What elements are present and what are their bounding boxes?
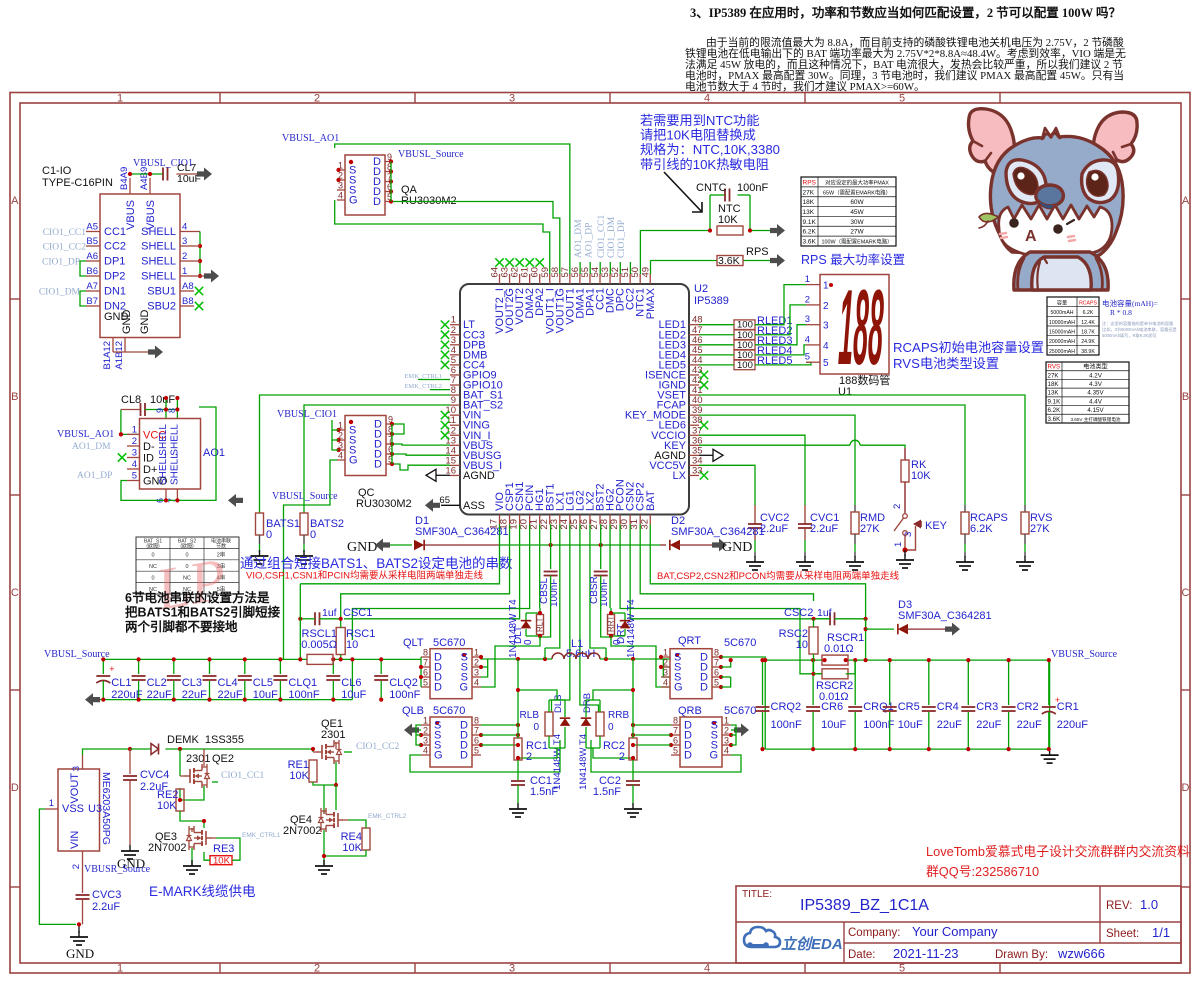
svg-text:D: D [374, 459, 382, 471]
IC U3 ME6203A50PG [45, 755, 112, 869]
svg-text:VBUSR_Source: VBUSR_Source [84, 864, 151, 875]
svg-text:7: 7 [714, 658, 719, 668]
display U1 188 digital tube [805, 267, 891, 398]
svg-text:2N7002: 2N7002 [283, 825, 322, 837]
svg-text:2: 2 [182, 251, 187, 262]
logo LCEDA [744, 927, 843, 953]
svg-text:2: 2 [314, 93, 320, 105]
svg-text:D+: D+ [143, 464, 157, 476]
svg-text:若需要用到NTC功能: 若需要用到NTC功能 [640, 113, 759, 128]
svg-text:D: D [460, 750, 468, 762]
svg-text:4.15V: 4.15V [1087, 407, 1104, 414]
svg-text:1uf: 1uf [817, 607, 832, 619]
svg-text:CL4: CL4 [218, 677, 238, 689]
capacitor CC2 1.5nF [593, 775, 640, 803]
svg-text:12.4K: 12.4K [1081, 320, 1095, 326]
wire CSN1 pin19 [344, 525, 520, 619]
capacitor CVC1 2.2uF [798, 505, 839, 557]
table battery series configuration [136, 537, 239, 594]
svg-text:C: C [1182, 587, 1190, 599]
annotation BATS series config (blue) [240, 555, 513, 571]
decorative cartoon sticker (Stitch hood character) [969, 109, 1138, 290]
resistor RE3 10K [204, 838, 240, 867]
svg-text:10uF: 10uF [821, 719, 846, 731]
svg-text:1.5nF: 1.5nF [593, 786, 621, 798]
svg-text:2: 2 [314, 963, 320, 975]
svg-text:SHELL: SHELL [141, 256, 176, 268]
svg-text:SHELL: SHELL [158, 453, 169, 485]
svg-text:B7: B7 [86, 296, 98, 307]
document heading text [685, 5, 1126, 93]
svg-text:RE3: RE3 [213, 843, 234, 855]
wire LG1 pin24 [552, 525, 570, 713]
wire QRT gate drive [611, 636, 670, 687]
capacitor CBSL 100nF [539, 572, 560, 638]
net port D3 gnd [945, 623, 960, 636]
wire LX2 pin26 [590, 525, 606, 649]
svg-text:VBUSL_CIO1: VBUSL_CIO1 [277, 409, 337, 420]
net label VBUSL_AO1 (AO1) [57, 429, 114, 440]
svg-text:0: 0 [608, 722, 614, 733]
svg-text:DP1: DP1 [104, 256, 125, 268]
net label CIO1_CC1 (QE2) [212, 771, 265, 782]
svg-text:VBUSL_Source: VBUSL_Source [272, 491, 338, 502]
svg-text:22uF: 22uF [147, 689, 172, 701]
svg-text:4: 4 [338, 191, 343, 201]
svg-text:13K: 13K [803, 209, 815, 216]
svg-text:DP2: DP2 [104, 271, 125, 283]
svg-text:DEMK 1SS355: DEMK 1SS355 [167, 734, 244, 746]
svg-text:5C670: 5C670 [433, 705, 465, 717]
svg-text:100nF: 100nF [737, 182, 768, 194]
net port AO1 ground [228, 494, 243, 507]
svg-text:CRQ2: CRQ2 [771, 701, 802, 713]
svg-text:B6: B6 [86, 266, 98, 277]
ground CVC1 [796, 556, 814, 570]
svg-text:SMF30A_C364281: SMF30A_C364281 [415, 526, 509, 538]
transistor QC RU3030M2 [336, 415, 411, 511]
svg-text:VBUSL_AO1: VBUSL_AO1 [57, 429, 114, 440]
svg-text:CIO1_DM: CIO1_DM [607, 216, 617, 258]
svg-text:10: 10 [796, 639, 808, 651]
svg-text:100nF: 100nF [771, 719, 802, 731]
svg-text:SHELL: SHELL [141, 271, 176, 283]
svg-text:60W: 60W [850, 199, 864, 206]
svg-text:A: A [11, 195, 19, 207]
ground KEY [896, 554, 914, 568]
annotation note NTC replacement (blue) [640, 113, 780, 172]
wire QC drain to U2 VBUS pins [392, 424, 450, 470]
wire BST2 pin27 to CBSR [600, 525, 602, 570]
svg-text:1N4148W T4: 1N4148W T4 [626, 599, 637, 658]
svg-text:CL1: CL1 [111, 677, 131, 689]
capacitor CBSR 100nF [589, 572, 611, 638]
transistor QE1 2301 [311, 718, 346, 785]
svg-text:0: 0 [612, 639, 623, 645]
svg-text:PMAX: PMAX [645, 287, 657, 319]
capacitor CR3 22uF [961, 658, 1001, 751]
wire U3 VIN down [77, 866, 83, 933]
annotation RPS max power (blue) [801, 252, 905, 267]
svg-text:CVC4: CVC4 [140, 769, 169, 781]
wire VBUSL_AO1 loop [335, 144, 570, 274]
svg-text:3.6K: 3.6K [803, 239, 817, 246]
svg-text:RLB: RLB [520, 710, 540, 721]
capacitor CL8 10uF [121, 394, 175, 416]
svg-text:3: 3 [823, 321, 829, 332]
svg-text:GND: GND [722, 540, 752, 555]
diode DEMK 1SS355 [151, 734, 244, 755]
svg-text:AO1_DP: AO1_DP [585, 223, 595, 258]
diode DRB 1N4148W T4 [578, 693, 593, 790]
svg-text:7: 7 [673, 726, 678, 736]
svg-text:BAT: BAT [645, 490, 657, 511]
svg-text:5: 5 [673, 746, 678, 756]
wire BAT pin32 [650, 525, 865, 630]
annotation LoveTomb group (red) [926, 844, 1190, 879]
resistor BATS1 0 [256, 513, 301, 552]
svg-text:10uF: 10uF [898, 719, 923, 731]
svg-text:65W（需配置EMARK电路）: 65W（需配置EMARK电路） [823, 188, 891, 196]
svg-text:CLQ2: CLQ2 [389, 677, 418, 689]
resistor RRB 0 [586, 688, 635, 758]
diode DLB 1N4148W T4 [516, 688, 570, 790]
svg-text:A: A [1025, 228, 1037, 245]
ground CVC4 [117, 845, 145, 871]
ground RCAPS [956, 556, 974, 570]
svg-text:2.2uF: 2.2uF [810, 523, 838, 535]
svg-text:R * 0.8: R * 0.8 [1110, 308, 1132, 317]
svg-text:铁锂电池在低电输出下的 BAT 端功率最大为 2.75V*2: 铁锂电池在低电输出下的 BAT 端功率最大为 2.75V*2*8.8A≈48.4… [685, 46, 1126, 60]
svg-text:3.65V 主打磷酸铁锂电池: 3.65V 主打磷酸铁锂电池 [1070, 416, 1120, 423]
wire DN pair jog [80, 291, 86, 306]
transistor QRT 5C670 [659, 635, 757, 699]
svg-text:5000mAH: 5000mAH [1050, 310, 1073, 316]
svg-text:U3: U3 [88, 803, 102, 815]
AGND arrow U2 pin35 [699, 449, 723, 461]
svg-text:1/1: 1/1 [1152, 925, 1170, 940]
resistor RE1 10K [288, 759, 339, 787]
svg-text:4: 4 [132, 459, 137, 470]
switch KEY [892, 504, 948, 556]
svg-text:CIO1_CC1: CIO1_CC1 [597, 214, 607, 258]
title block [736, 886, 1181, 963]
svg-text:5: 5 [805, 352, 810, 363]
svg-text:D: D [700, 682, 708, 694]
svg-text:2301: 2301 [321, 729, 345, 741]
net port GND D1 [375, 539, 390, 552]
ground CVC3 [66, 931, 94, 961]
svg-text:B4A9: B4A9 [119, 167, 130, 190]
svg-text:RCAPS: RCAPS [1079, 301, 1097, 307]
svg-text:2: 2 [474, 658, 479, 668]
net label CIO1_CC2 (QE1) [344, 742, 400, 752]
svg-text:C1-IO: C1-IO [42, 165, 72, 177]
svg-text:7: 7 [423, 658, 428, 668]
capacitor CVC4 2.2uF [123, 749, 169, 845]
svg-text:1: 1 [724, 716, 729, 726]
diode D2 SMF30A_C364281 [660, 515, 765, 550]
svg-text:ME6203A50PG: ME6203A50PG [100, 772, 112, 845]
svg-text:49: 49 [640, 267, 651, 278]
resistor RSC1 10 [301, 601, 375, 662]
svg-text:22uF: 22uF [937, 719, 962, 731]
wire PCIN pin20 [352, 525, 529, 641]
svg-text:5: 5 [714, 678, 719, 688]
wire BST1 pin22 to CBSL [550, 525, 552, 570]
svg-text:3: 3 [663, 668, 668, 678]
svg-text:2301: 2301 [186, 753, 210, 765]
svg-text:wzw666: wzw666 [1057, 946, 1105, 961]
svg-text:C: C [11, 587, 19, 599]
svg-text:3: 3 [182, 236, 187, 247]
wires RLED to display [755, 285, 811, 365]
svg-text:6.2K: 6.2K [1083, 310, 1094, 316]
svg-text:RLT: RLT [536, 617, 545, 632]
svg-text:CR4: CR4 [937, 701, 959, 713]
svg-text:2.2uF: 2.2uF [92, 901, 120, 913]
net label CIO1_CC2 [43, 243, 87, 253]
wire FCAP to RCAPS [699, 405, 965, 505]
wire QRT drain to VBUSR rail [721, 657, 765, 687]
resistor RSCR1 0.01ohm [822, 632, 864, 665]
svg-text:GND: GND [139, 310, 151, 335]
svg-text:3.6K: 3.6K [718, 255, 740, 267]
svg-text:0: 0 [310, 529, 316, 541]
svg-text:Drawn By:: Drawn By: [995, 949, 1048, 961]
table RVS battery type [1046, 362, 1129, 423]
resistor RSCL1 0.005ohm [307, 654, 333, 664]
svg-text:RCAPS初始电池容量设置: RCAPS初始电池容量设置 [893, 339, 1044, 355]
wire CSN2 pin30 [630, 525, 829, 619]
svg-text:QRB: QRB [678, 705, 702, 717]
svg-text:+: + [109, 664, 114, 674]
svg-text:CIO1_DM: CIO1_DM [39, 288, 81, 298]
svg-text:3.6K: 3.6K [1048, 416, 1062, 423]
svg-text:QLB: QLB [402, 705, 424, 717]
resistor RMD 27K [851, 505, 885, 557]
svg-text:CSC2: CSC2 [784, 607, 813, 619]
svg-text:比如，3节5000mAh电池串联，容量还是: 比如，3节5000mAh电池串联，容量还是 [1102, 326, 1178, 333]
wire VBUSR bottom rail [765, 748, 1049, 750]
svg-text:4: 4 [704, 93, 710, 105]
capacitor CVC3 2.2uF [76, 889, 122, 924]
svg-text:10K: 10K [289, 770, 309, 782]
svg-text:SHELL: SHELL [169, 424, 180, 456]
net label CIO1_DP [42, 258, 80, 268]
svg-text:A4B9: A4B9 [139, 167, 150, 190]
svg-text:CL5: CL5 [253, 677, 273, 689]
svg-text:Sheet:: Sheet: [1106, 928, 1139, 940]
svg-text:B5: B5 [86, 236, 98, 247]
IC AO1 USB plug [127, 408, 225, 503]
svg-text:GND: GND [121, 310, 133, 335]
svg-text:100: 100 [737, 360, 753, 371]
svg-text:10K: 10K [157, 800, 177, 812]
svg-text:LoveTomb爱慕式电子设计交流群群内交流资料: LoveTomb爱慕式电子设计交流群群内交流资料 [926, 844, 1190, 859]
svg-text:188: 188 [837, 267, 885, 388]
resistor BATS2 0 [300, 513, 344, 552]
svg-text:D: D [373, 196, 381, 208]
transistor QE2 2301 [178, 749, 234, 802]
net label AO1_DP [77, 471, 112, 481]
svg-text:AO1_DP: AO1_DP [77, 471, 112, 481]
resistor RCAPS 6.2K [961, 505, 1008, 557]
svg-text:DRB: DRB [582, 693, 593, 713]
svg-text:(欧姆): (欧姆) [180, 543, 194, 550]
svg-text:9.1K: 9.1K [1048, 398, 1062, 405]
svg-text:VBUSL_Source: VBUSL_Source [44, 649, 110, 660]
svg-text:CR5: CR5 [898, 701, 920, 713]
svg-text:G: G [459, 682, 468, 694]
annotation 6-cell note (black) [125, 590, 281, 634]
ground CC2 [624, 803, 642, 817]
resistor RRT 0 [607, 608, 626, 645]
svg-text:D-: D- [143, 441, 155, 453]
transistor QE3 2N7002 [148, 826, 216, 866]
svg-text:CIO1_CC1: CIO1_CC1 [221, 771, 265, 781]
svg-text:25000mAH: 25000mAH [1049, 349, 1075, 355]
svg-text:0.01Ω: 0.01Ω [824, 643, 854, 655]
wires U2 top pins 56-51 up [580, 262, 630, 274]
svg-text:2N7002: 2N7002 [148, 842, 187, 854]
svg-text:U2: U2 [694, 283, 708, 295]
svg-text:G: G [349, 195, 358, 207]
diode DLT 1N4148W T4 [508, 599, 531, 658]
svg-text:VBUSR_Source: VBUSR_Source [1051, 649, 1118, 660]
svg-text:220uF: 220uF [1057, 719, 1088, 731]
wire VCCIO to CVC1 [699, 435, 805, 505]
net label GND D2 [722, 540, 752, 555]
svg-text:22uF: 22uF [1017, 719, 1042, 731]
svg-text:(欧姆): (欧姆) [146, 543, 160, 550]
ground CC1 [509, 803, 527, 817]
net label VBUSL_Source (QC) [272, 491, 338, 502]
resistor network RLED1-RLED5 100ohm [699, 315, 792, 371]
svg-text:32: 32 [639, 519, 650, 530]
no-connect flags SBU1 SBU2 [195, 287, 203, 310]
svg-text:CIO1_CC2: CIO1_CC2 [43, 243, 87, 253]
svg-text:CVC3: CVC3 [92, 889, 121, 901]
resistor RSCR2 0.01ohm [811, 660, 855, 703]
ground QE3 [183, 860, 201, 874]
svg-text:1: 1 [117, 93, 123, 105]
AGND arrow U2 pin16 [426, 469, 450, 481]
capacitor CR2 22uF [1002, 658, 1042, 751]
svg-text:4.2V: 4.2V [1089, 372, 1103, 379]
svg-text:A5: A5 [86, 222, 98, 233]
no-connect AO1 pin3 [118, 453, 126, 461]
svg-text:6: 6 [673, 736, 678, 746]
net port QRB source ground [731, 724, 749, 737]
svg-text:VIN: VIN [69, 831, 81, 849]
svg-text:IP5389_BZ_1C1A: IP5389_BZ_1C1A [800, 897, 929, 914]
ground RMD [846, 556, 864, 570]
svg-text:18.7K: 18.7K [1081, 330, 1095, 336]
svg-text:3: 3 [132, 448, 137, 459]
svg-text:RRT: RRT [607, 616, 616, 632]
svg-text:8: 8 [423, 648, 428, 658]
wire QRB source ties [731, 725, 736, 745]
capacitor CL4 22uF [203, 657, 243, 701]
capacitor CR1 220uF [1042, 658, 1088, 751]
svg-text:RRB: RRB [608, 710, 629, 721]
svg-text:RPS 最大功率设置: RPS 最大功率设置 [801, 252, 905, 267]
capacitor CL6 10uF [326, 657, 366, 701]
svg-text:4.4V: 4.4V [1089, 398, 1103, 405]
wire VBUSL top rail [103, 657, 423, 700]
capacitor CR6 10uF [806, 658, 846, 751]
wire U3 VSS loop [39, 809, 76, 924]
svg-text:SHELL: SHELL [169, 453, 180, 485]
svg-text:SHELL: SHELL [158, 424, 169, 456]
svg-text:3: 3 [724, 736, 729, 746]
IC U2 IP5389 body [460, 283, 729, 515]
svg-text:容量: 容量 [1057, 299, 1067, 307]
diode DRT 1N4148W T4 [616, 599, 637, 658]
svg-text:VSS: VSS [62, 803, 84, 815]
no-connect flags U2 pins 60-64 [495, 258, 544, 266]
annotation leader line [664, 172, 702, 212]
svg-text:1: 1 [423, 716, 428, 726]
wire NTC1 pin50 [640, 231, 660, 275]
svg-text:2: 2 [619, 751, 625, 763]
svg-text:群QQ号:232586710: 群QQ号:232586710 [926, 864, 1039, 879]
svg-text:1uf: 1uf [322, 607, 337, 619]
resistor RC1 2 [514, 713, 548, 780]
net label VBUSL_Source (rail) [44, 649, 110, 660]
svg-text:5: 5 [132, 471, 137, 482]
pin 65 ASS [439, 495, 485, 512]
svg-text:CIO1_DP: CIO1_DP [42, 258, 80, 268]
svg-text:RPS: RPS [803, 179, 817, 186]
svg-text:27K: 27K [1030, 523, 1050, 535]
capacitor CLQ2 100nF [374, 657, 420, 701]
svg-text:RU3030M2: RU3030M2 [356, 498, 412, 510]
svg-text:65: 65 [439, 495, 450, 506]
svg-text:1: 1 [182, 266, 187, 277]
ground QE4 [315, 860, 333, 874]
svg-text:电池时，PMAX 最高配置 30W。同理，3 节电池时，我们: 电池时，PMAX 最高配置 30W。同理，3 节电池时，我们建议 PMAX 最高… [685, 68, 1124, 82]
net port ASS ground [425, 499, 440, 512]
svg-text:8: 8 [474, 716, 479, 726]
diode D1 SMF30A_C364281 [390, 515, 509, 550]
svg-text:5000mAh填写，R取6.2K即可: 5000mAh填写，R取6.2K即可 [1102, 332, 1157, 339]
svg-text:G: G [349, 455, 358, 467]
svg-text:TITLE:: TITLE: [742, 889, 772, 900]
svg-text:3: 3 [509, 963, 515, 975]
svg-text:8: 8 [167, 408, 177, 413]
ground BATS1 [251, 550, 269, 564]
wire QRB drain to switch node [631, 723, 671, 747]
svg-text:CIO1_DP: CIO1_DP [617, 220, 627, 258]
svg-text:5C670: 5C670 [433, 637, 465, 649]
svg-text:188数码管: 188数码管 [839, 373, 890, 387]
svg-text:4: 4 [423, 746, 428, 756]
svg-text:2: 2 [823, 301, 829, 312]
net label VBUSR_Source (U3) [84, 864, 151, 875]
svg-text:100W（需配置EMARK电路）: 100W（需配置EMARK电路） [822, 238, 893, 246]
svg-text:带引线的10K热敏电阻: 带引线的10K热敏电阻 [640, 157, 769, 172]
wire DP pair jog [80, 261, 86, 276]
IC U2 top pins 64-49 [490, 267, 657, 334]
svg-text:3: 3 [423, 736, 428, 746]
svg-text:10K: 10K [213, 856, 231, 867]
svg-text:2: 2 [663, 658, 668, 668]
resistor RE2 10K [157, 789, 206, 828]
svg-text:CL6: CL6 [341, 677, 361, 689]
capacitor CC1 1.5nF [511, 775, 558, 803]
